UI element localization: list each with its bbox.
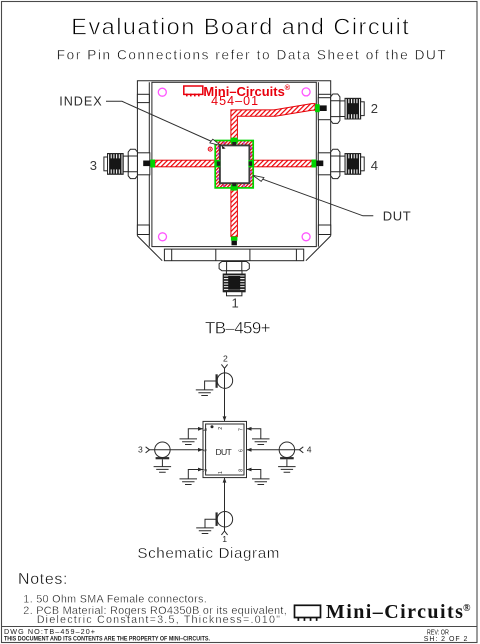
port 1 ground wire bbox=[205, 519, 216, 528]
svg-text:Mini–Circuits: Mini–Circuits bbox=[326, 601, 463, 623]
connector 3 end cap bbox=[104, 157, 108, 171]
port 4 open arrow bbox=[299, 447, 303, 453]
svg-text:4: 4 bbox=[371, 158, 378, 173]
pad at DUT top bbox=[231, 138, 238, 144]
svg-text:2: 2 bbox=[218, 427, 224, 430]
svg-text:2: 2 bbox=[223, 354, 228, 364]
case ear tab upper-left bbox=[137, 94, 149, 102]
case bottom chamfer right bbox=[306, 236, 331, 261]
case outer body bbox=[137, 81, 330, 236]
svg-text:Notes:: Notes: bbox=[18, 571, 68, 588]
svg-text:2: 2 bbox=[371, 101, 378, 116]
pad at DUT left bbox=[215, 160, 221, 167]
DUT box outer bbox=[203, 421, 247, 477]
case inner wall right bbox=[317, 82, 319, 246]
port 2 connector bracket bbox=[216, 374, 218, 388]
svg-text:454–01: 454–01 bbox=[211, 94, 258, 108]
connector 4 flange bbox=[318, 153, 330, 175]
DUT left-mid pin arrow bbox=[198, 448, 203, 452]
port 3 connector circle bbox=[155, 442, 171, 458]
port 4 ground bbox=[278, 467, 296, 473]
DUT corner mark bbox=[222, 146, 226, 149]
INDEX leader line bbox=[106, 101, 216, 143]
flange bar tick marks bbox=[172, 249, 297, 261]
title block divider bbox=[2, 626, 478, 628]
trace to port 3 (hatched) bbox=[155, 160, 216, 167]
svg-text:8: 8 bbox=[239, 469, 245, 472]
svg-text:TB–459+: TB–459+ bbox=[205, 318, 271, 337]
DUT right-bottom pin wire and ground bbox=[247, 470, 261, 479]
screw hole top-left bbox=[158, 88, 166, 96]
svg-text:1. 50 Ohm SMA Female connector: 1. 50 Ohm SMA Female connectors. bbox=[23, 594, 206, 606]
svg-text:1: 1 bbox=[232, 296, 239, 311]
screw hole bottom-left bbox=[159, 233, 167, 241]
DUT pin arrow bottom bbox=[223, 478, 227, 483]
connector 4 end cap bbox=[361, 157, 365, 171]
port 1 ground bbox=[196, 528, 214, 534]
svg-text:DUT: DUT bbox=[216, 447, 233, 457]
case inner wall left bbox=[148, 82, 150, 246]
pin 1 indicator dot bbox=[211, 425, 214, 428]
svg-text:4: 4 bbox=[203, 449, 209, 452]
DUT body bbox=[220, 145, 250, 183]
trace to port 4 (hatched) bbox=[253, 160, 312, 167]
svg-text:THIS DOCUMENT AND ITS CONTENTS: THIS DOCUMENT AND ITS CONTENTS ARE THE P… bbox=[4, 635, 210, 642]
case bottom flange bar bbox=[164, 249, 303, 261]
DUT right-mid pin arrow bbox=[247, 448, 252, 452]
svg-text:Dielectric Constant=3.5, Thick: Dielectric Constant=3.5, Thickness=.010" bbox=[37, 614, 280, 626]
SMA connector 2 bbox=[318, 94, 364, 123]
connector 3 threaded barrel bbox=[108, 154, 124, 175]
svg-text:1: 1 bbox=[218, 471, 224, 474]
SMA connector 4 bbox=[318, 149, 364, 178]
screw hole bottom-right bbox=[302, 233, 310, 241]
case ear tab lower-left bbox=[137, 225, 149, 235]
svg-text:3: 3 bbox=[203, 469, 209, 472]
DUT box inner bbox=[206, 424, 244, 475]
red Mini-Circuits logo icon bbox=[184, 86, 203, 96]
connector 1 neck bbox=[226, 271, 242, 274]
svg-text:1: 1 bbox=[222, 534, 227, 544]
black Mini-Circuits logo icon bbox=[295, 605, 321, 621]
svg-text:For Pin Connections refer to D: For Pin Connections refer to Data Sheet … bbox=[57, 48, 446, 63]
port 4 connector circle bbox=[279, 442, 295, 458]
wire port3 to DUT bbox=[150, 449, 204, 451]
index via marker bbox=[208, 147, 212, 151]
connector 4 threaded barrel bbox=[345, 154, 361, 175]
port 2 ground wire bbox=[205, 381, 216, 390]
svg-text:5: 5 bbox=[203, 428, 209, 431]
case bottom chamfer left bbox=[137, 236, 162, 261]
case ear tab upper-right bbox=[318, 94, 330, 102]
svg-text:Schematic Diagram: Schematic Diagram bbox=[137, 545, 279, 562]
pad at wall port 3 bbox=[150, 160, 155, 168]
port 3 open arrow bbox=[146, 447, 150, 453]
pin port 4 bbox=[316, 161, 323, 167]
trace to port 2 (hatched) bbox=[231, 104, 315, 141]
wire port2 to DUT bbox=[224, 368, 226, 421]
connector 2 hex nut bbox=[331, 94, 340, 123]
DUT left-bottom pin wire and ground bbox=[188, 470, 203, 479]
pin port 3 bbox=[143, 161, 150, 167]
connector 2 neck bbox=[340, 101, 345, 117]
trace to port 1 (hatched) bbox=[231, 188, 238, 237]
connector 1 end cap bbox=[227, 292, 242, 296]
pad at wall port 2 bbox=[315, 104, 320, 112]
DUT pin marks bbox=[217, 142, 252, 186]
svg-text:Evaluation Board and Circuit: Evaluation Board and Circuit bbox=[71, 13, 409, 39]
svg-text:3: 3 bbox=[90, 158, 97, 173]
connector 3 flange bbox=[137, 153, 149, 175]
port 2 open arrow bbox=[221, 364, 227, 368]
port 3 ground wire bbox=[161, 459, 163, 466]
svg-text:DUT: DUT bbox=[383, 209, 411, 224]
connector 2 flange bbox=[318, 98, 330, 120]
connector 1 hex nut bbox=[219, 262, 249, 271]
pin numbers bbox=[203, 427, 245, 474]
DUT left-top pin wire and ground bbox=[188, 429, 203, 439]
port 2 ground bbox=[196, 390, 214, 396]
port 1 open arrow bbox=[221, 531, 227, 535]
svg-text:®: ® bbox=[285, 83, 291, 92]
pin port 2 bbox=[320, 105, 327, 111]
connector 3 neck bbox=[123, 156, 128, 172]
pin port 1 bbox=[232, 241, 237, 246]
connector 4 neck bbox=[340, 156, 345, 172]
svg-text:6: 6 bbox=[239, 449, 245, 452]
pad at DUT bottom bbox=[231, 184, 238, 190]
port 3 ground bbox=[154, 467, 172, 473]
svg-text:3: 3 bbox=[138, 445, 143, 455]
port 4 ground wire bbox=[286, 459, 288, 466]
pad at wall port 4 bbox=[312, 160, 317, 168]
connector 4 hex nut bbox=[331, 149, 340, 178]
svg-text:INDEX: INDEX bbox=[59, 95, 102, 109]
connector 2 end cap bbox=[361, 102, 365, 116]
port 4 connector bracket bbox=[280, 457, 294, 459]
port 3 connector bracket bbox=[156, 457, 170, 459]
connector 1 threaded barrel bbox=[223, 274, 245, 292]
DUT footprint land pattern bbox=[215, 141, 253, 188]
PCB outline bbox=[152, 82, 316, 246]
DUT label leader line bbox=[255, 176, 374, 216]
screw hole top-right bbox=[302, 88, 310, 96]
port 2 connector circle bbox=[217, 373, 233, 389]
wire port1 to DUT bbox=[224, 478, 226, 531]
connector 3 hex nut bbox=[128, 149, 137, 178]
svg-text:®: ® bbox=[463, 603, 471, 614]
DUT pin arrow top bbox=[223, 416, 227, 421]
DUT right-top pin wire and ground bbox=[247, 429, 261, 439]
pad at DUT right bbox=[248, 160, 254, 167]
INDEX leader arrowhead bbox=[210, 139, 221, 145]
DUT leader arrowhead bbox=[253, 175, 264, 181]
port 1 connector circle bbox=[217, 511, 233, 527]
wire port4 to DUT bbox=[247, 449, 300, 451]
case ear tab lower-right bbox=[318, 225, 330, 235]
connector 2 threaded barrel bbox=[345, 98, 361, 119]
svg-text:SH: 2 OF 2: SH: 2 OF 2 bbox=[424, 636, 468, 643]
port 1 connector bracket bbox=[216, 512, 218, 526]
footprint via dots bbox=[217, 142, 252, 187]
SMA connector 3 bbox=[104, 149, 150, 178]
svg-text:4: 4 bbox=[307, 445, 312, 455]
svg-text:7: 7 bbox=[239, 428, 245, 431]
SMA connector 1 bbox=[219, 262, 249, 296]
pad at wall port 1 bbox=[231, 237, 238, 241]
